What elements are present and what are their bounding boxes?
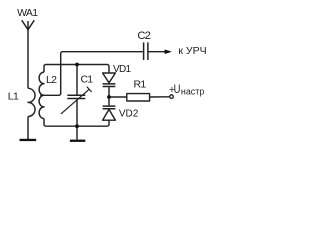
diode VD1 varicap (103, 73, 116, 87)
svg-text:C1: C1 (81, 74, 94, 86)
wire C2 to arrow (149, 51, 166, 53)
svg-text:L2: L2 (46, 74, 57, 86)
antenna WA1 (22, 20, 35, 30)
bottom rail junction dot (75, 124, 79, 128)
wire node A (L2 top to VD1 anode) (44, 65, 109, 74)
wire L2 tap to C2 (40, 52, 143, 96)
terminal circle +U (170, 95, 174, 99)
inductor L1 (28, 88, 35, 116)
diode VD2 varicap (103, 106, 116, 120)
wire antenna to L1 (27, 29, 29, 88)
svg-text:к УРЧ: к УРЧ (178, 46, 206, 57)
wire L1 bottom to ground (27, 117, 29, 140)
wire VD1 to node M (108, 87, 110, 97)
ground bar under L1 (20, 139, 37, 141)
svg-text:WA1: WA1 (17, 7, 38, 19)
svg-text:VD2: VD2 (119, 108, 139, 119)
resistor R1 (127, 94, 150, 101)
capacitor C2 (144, 42, 148, 60)
svg-text:L1: L1 (8, 90, 19, 102)
C1 trimmer arrow (61, 87, 92, 114)
wire node M to VD2 (108, 97, 110, 105)
wire bottom rail (L2 bottom to VD2 bottom) (44, 119, 109, 127)
svg-text:настр: настр (181, 86, 204, 97)
wire C1 bottom lead (76, 99, 78, 126)
capacitor C1 plates (67, 95, 85, 98)
arrowhead to URCh (165, 50, 171, 54)
svg-text:VD1: VD1 (113, 64, 131, 75)
svg-text:C2: C2 (137, 30, 150, 42)
svg-text:U: U (174, 82, 181, 96)
wire R1 to terminal (150, 96, 170, 98)
ground bar under C1 (70, 140, 85, 142)
wire ground stub under C1 (76, 126, 78, 139)
node M junction dot (107, 95, 111, 99)
wire node M to R1 (109, 96, 127, 98)
inductor L2 (39, 72, 44, 118)
wire C1 top lead (76, 65, 78, 95)
svg-text:R1: R1 (134, 79, 147, 91)
node A junction dot (75, 63, 79, 67)
